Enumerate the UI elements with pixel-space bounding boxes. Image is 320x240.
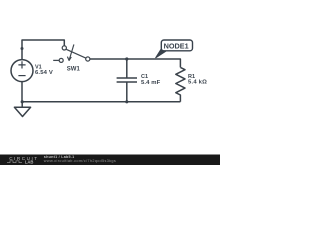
- svg-text:6.54 V: 6.54 V: [35, 70, 53, 76]
- svg-text:www.circuitlab.com/c/7h2qcd5s3: www.circuitlab.com/c/7h2qcd5s3kgs: [44, 159, 116, 163]
- junction dot bottom-left: [21, 100, 24, 103]
- svg-text:SW1: SW1: [67, 67, 81, 73]
- wire SW1 to R1: [90, 59, 180, 67]
- ground: [14, 102, 30, 117]
- svg-text:5.4 mF: 5.4 mF: [141, 80, 161, 86]
- junction dot bottom C1: [125, 100, 128, 103]
- footer bar: [0, 154, 220, 165]
- svg-text:5.4 kΩ: 5.4 kΩ: [188, 80, 207, 86]
- switch SW1: [53, 44, 90, 62]
- footer logo waveform: [7, 161, 22, 163]
- svg-text:NODE1: NODE1: [164, 42, 189, 51]
- wire V1 top to SW1: [22, 40, 64, 60]
- resistor R1: [176, 67, 185, 101]
- node dot top of V1: [21, 47, 24, 50]
- wire V1 bottom to ground junction: [21, 82, 23, 102]
- junction dot top C1: [125, 57, 128, 60]
- svg-text:LAB: LAB: [25, 160, 34, 165]
- node NODE1 flag: [156, 40, 193, 58]
- bottom wire: [22, 101, 180, 103]
- voltage source V1: [11, 60, 33, 82]
- capacitor C1: [117, 59, 137, 102]
